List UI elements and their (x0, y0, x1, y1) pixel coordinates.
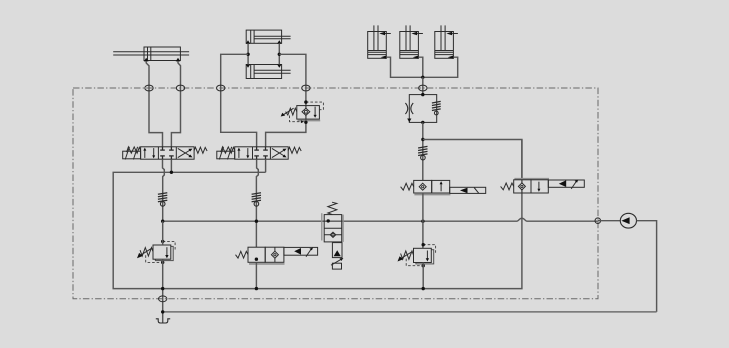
check valve CV1 (158, 193, 167, 207)
node: CB bottom (304, 121, 307, 124)
node: rail at V2 branch (255, 220, 258, 223)
wire: RV2 to tank rail (422, 263, 424, 289)
node: FC top (421, 93, 424, 96)
node: CB top (304, 100, 307, 103)
check valve CV3 (418, 146, 427, 160)
wire: pump return loop (637, 221, 657, 312)
wire: V1 P port with crossover (163, 159, 165, 221)
wire: V2 P port with crossover (256, 159, 258, 247)
wire: cylinder A left port to valve V1 A (146, 61, 162, 147)
check valve CV2 (252, 193, 261, 207)
node: rail at C-branch (421, 220, 424, 223)
wire: cylinder A right port to valve V1 B (171, 61, 180, 147)
port P5 (419, 85, 427, 91)
node: rail-SV1 drop (255, 287, 258, 290)
wire: tank rail T (113, 140, 522, 289)
node: FC bottom (421, 121, 424, 124)
enclosure dashed boundary (73, 88, 598, 299)
wire: pair left to valve V2 A (221, 54, 257, 147)
wire: RV1 to tank port (162, 259, 164, 322)
node: rail-RV2 drop (422, 287, 425, 290)
relief valve RV1 (137, 241, 175, 262)
wire: C3 port down to manifold (423, 57, 458, 77)
port P3 (217, 85, 225, 91)
cylinder B2 (bottom of middle pair) (246, 64, 291, 78)
cylinder C1 (plunger, top right) (368, 25, 391, 59)
node: cylinder manifold junction (421, 76, 424, 79)
wire: tank return line (163, 311, 657, 313)
node: rail at V1 branch (161, 220, 164, 223)
wire: C1 port down to manifold (386, 57, 423, 77)
node: branch to SV2 (421, 138, 424, 141)
node: V1 T junction (170, 171, 173, 174)
port P2 (bulkhead on boundary) (176, 85, 184, 91)
port P7 (tank port on boundary) (159, 296, 167, 302)
wire: rail to RV1 (162, 221, 164, 245)
wire: branch to solenoid valve SV2 (423, 140, 522, 180)
solenoid valve SV2 (right) (501, 179, 585, 193)
wire: pair link right (278, 43, 280, 64)
cylinder C3 (plunger, top right) (435, 25, 458, 59)
counterbalance valve CB (281, 102, 324, 123)
pump PU (620, 213, 636, 228)
wire: port to pump (598, 220, 621, 222)
wire: SV1 to tank rail (255, 262, 257, 288)
wire: pair right to counterbalance CB (266, 54, 306, 147)
node: pair right junction (278, 53, 281, 56)
wire: manifold to flow control (422, 77, 424, 94)
tank symbol (156, 319, 170, 323)
wire: C2 port down (418, 57, 422, 77)
unloader valve UV (vertical, on pressure rail) (322, 202, 344, 269)
wire: valve V2 T port (265, 159, 267, 172)
wire: pressure rail with hop over SV2 drop (163, 218, 598, 221)
node: tank line junction (161, 310, 164, 313)
node: inside SV1 (255, 258, 258, 261)
flow control with bypass check FC (405, 95, 440, 123)
node: UV on rail (327, 219, 330, 222)
directional valve V1 (4/3 proportional) (123, 147, 207, 160)
cylinder C2 (plunger, top right) (400, 25, 423, 59)
solenoid valve SVA (on cylinder branch) (401, 180, 486, 194)
wire: pair link left (247, 43, 249, 64)
port P6 (pressure outlet) (595, 218, 601, 224)
node: rail-V1 drop (161, 287, 164, 290)
node: pair left junction (246, 53, 249, 56)
cylinder A (double-rod, top left) (113, 47, 189, 61)
wire: valve V1 T port (170, 159, 172, 172)
wire: FC down main branch (422, 122, 424, 180)
cylinder B1 (top of middle pair) (246, 30, 291, 44)
port P1 (bulkhead on boundary) (145, 85, 153, 91)
directional valve V2 (4/3 proportional) (217, 147, 301, 160)
relief valve RV2 (398, 245, 436, 266)
wire: SVA down to rail (422, 193, 424, 248)
bypass solenoid valve SV1 (236, 247, 318, 264)
port P4 (302, 85, 310, 91)
